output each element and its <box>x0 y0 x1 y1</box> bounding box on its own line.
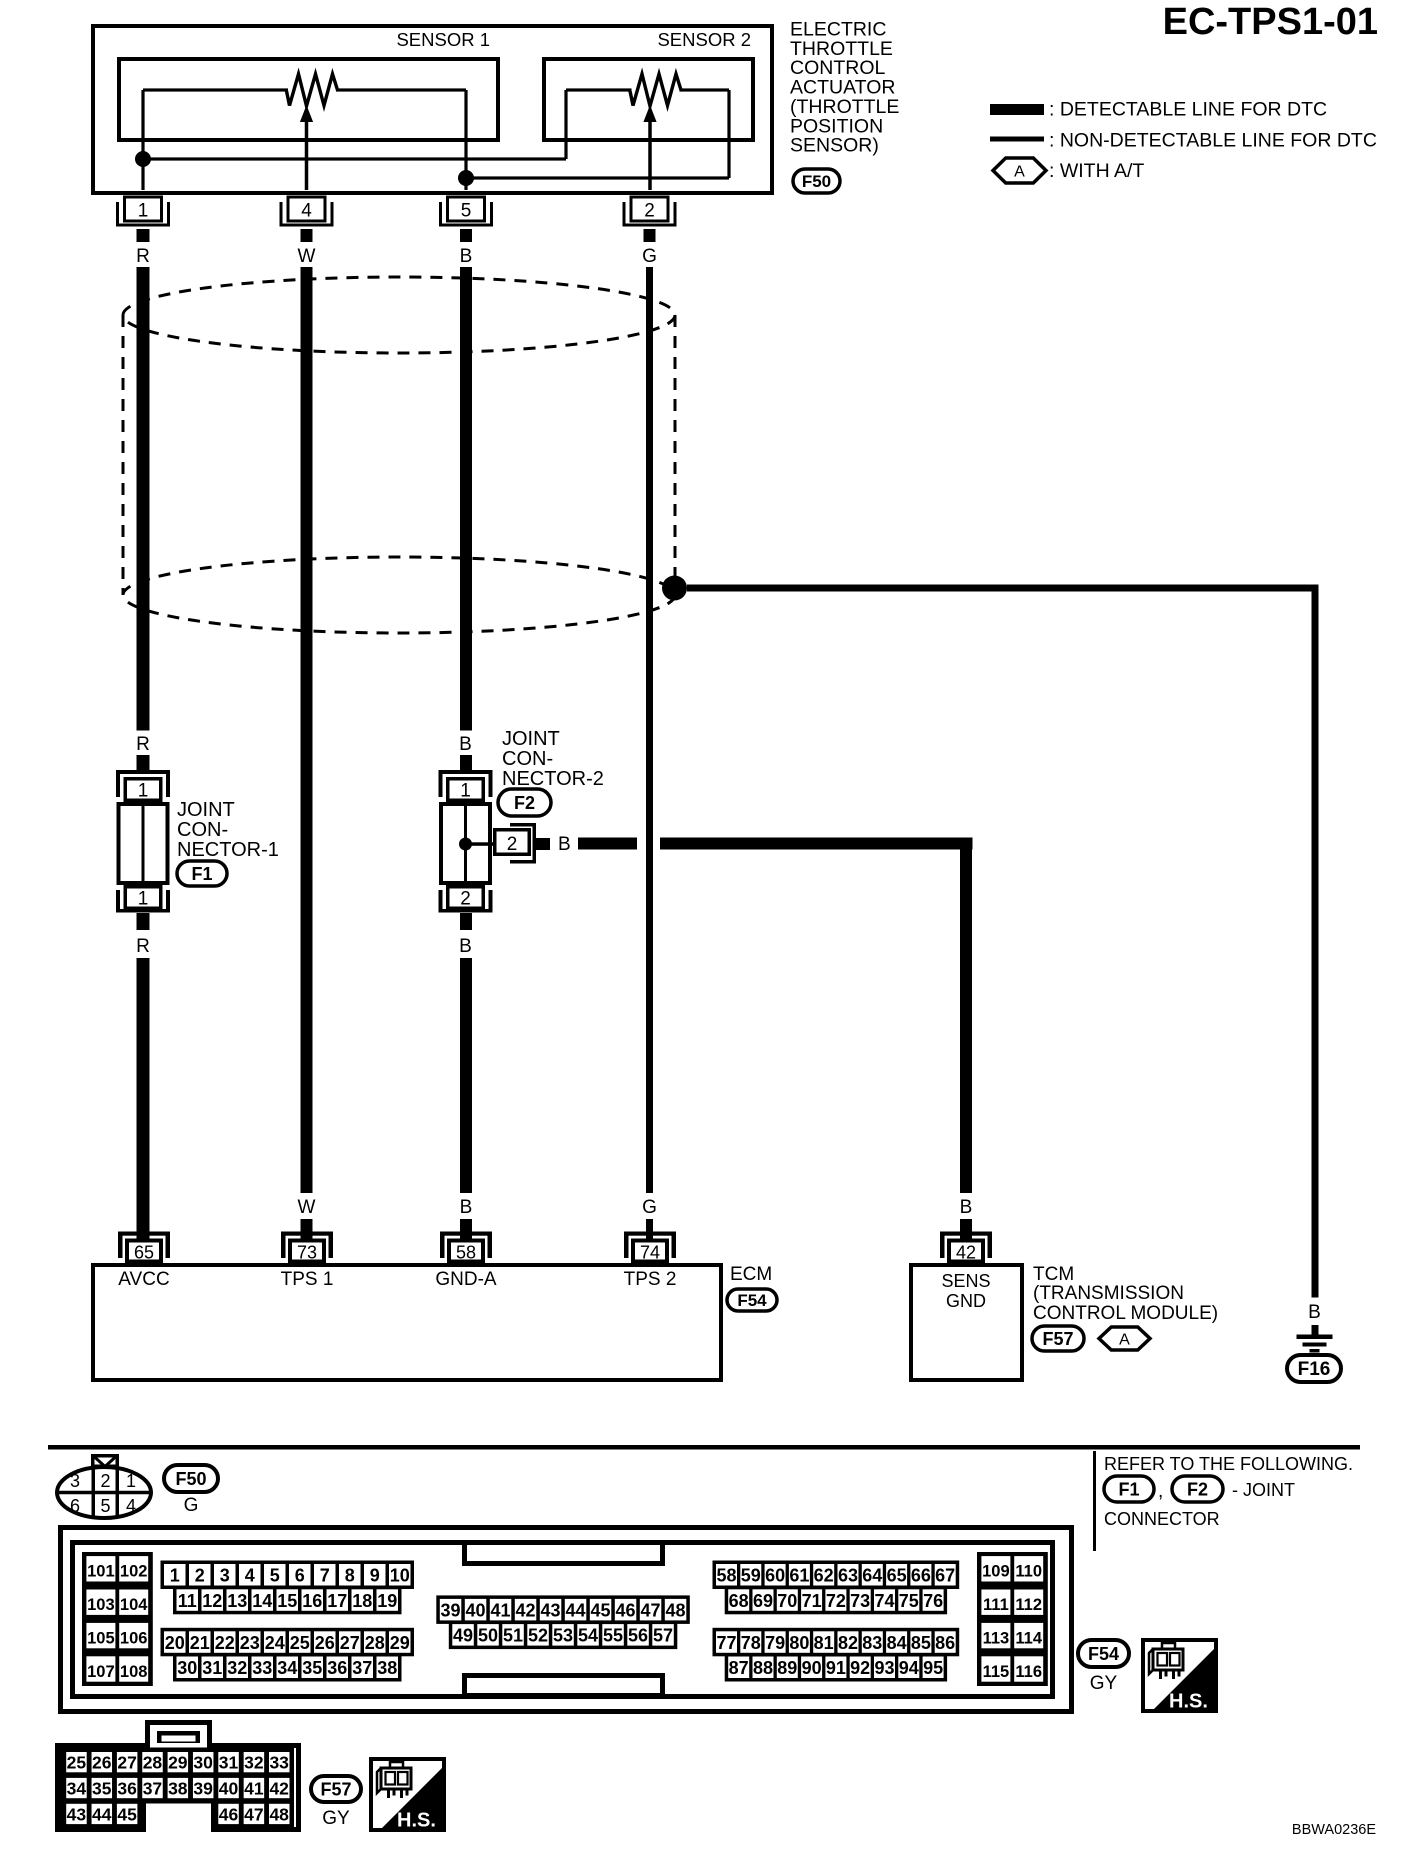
svg-text:73: 73 <box>850 1591 870 1611</box>
svg-text:34: 34 <box>67 1779 87 1799</box>
svg-text:33: 33 <box>252 1658 272 1678</box>
svg-text:41: 41 <box>491 1600 511 1620</box>
svg-text:33: 33 <box>269 1753 289 1773</box>
svg-text:JOINT: JOINT <box>502 728 560 750</box>
svg-text:54: 54 <box>578 1626 598 1646</box>
svg-text:1: 1 <box>138 201 149 222</box>
svg-text:30: 30 <box>177 1658 197 1678</box>
svg-text:CONTROL MODULE): CONTROL MODULE) <box>1033 1303 1218 1324</box>
svg-text:72: 72 <box>826 1591 846 1611</box>
svg-text:26: 26 <box>315 1633 335 1653</box>
svg-text:60: 60 <box>765 1566 785 1586</box>
svg-text:17: 17 <box>327 1591 347 1611</box>
svg-text:43: 43 <box>541 1600 561 1620</box>
svg-text:2: 2 <box>507 834 518 855</box>
svg-text:CON-: CON- <box>502 748 553 770</box>
svg-text:77: 77 <box>716 1633 736 1653</box>
svg-text:28: 28 <box>143 1753 163 1773</box>
svg-text:32: 32 <box>244 1753 264 1773</box>
svg-text:39: 39 <box>441 1600 461 1620</box>
svg-text:31: 31 <box>202 1658 222 1678</box>
svg-text:: DETECTABLE LINE FOR DTC: : DETECTABLE LINE FOR DTC <box>1049 99 1327 121</box>
svg-text:103: 103 <box>87 1596 115 1614</box>
svg-text:41: 41 <box>244 1779 264 1799</box>
svg-text:57: 57 <box>653 1626 673 1646</box>
svg-text:73: 73 <box>297 1243 317 1263</box>
svg-text:81: 81 <box>814 1633 834 1653</box>
svg-text:3: 3 <box>220 1566 230 1586</box>
svg-text:2: 2 <box>100 1471 110 1491</box>
svg-text:116: 116 <box>1015 1663 1042 1681</box>
svg-text:85: 85 <box>911 1633 931 1653</box>
svg-text:62: 62 <box>814 1566 834 1586</box>
svg-text:JOINT: JOINT <box>177 799 235 821</box>
svg-text:SENSOR 2: SENSOR 2 <box>657 29 751 50</box>
svg-text:29: 29 <box>390 1633 410 1653</box>
svg-text:71: 71 <box>802 1591 822 1611</box>
svg-text:6: 6 <box>70 1496 80 1516</box>
svg-text:GY: GY <box>322 1808 350 1829</box>
svg-text:CONNECTOR: CONNECTOR <box>1104 1509 1220 1529</box>
svg-text:88: 88 <box>753 1658 773 1678</box>
svg-text:B: B <box>460 1197 473 1218</box>
svg-text:20: 20 <box>165 1633 185 1653</box>
svg-text:13: 13 <box>227 1591 247 1611</box>
svg-text:113: 113 <box>983 1629 1010 1647</box>
svg-text:50: 50 <box>478 1626 498 1646</box>
svg-text:F57: F57 <box>320 1779 351 1799</box>
svg-text:F16: F16 <box>1298 1359 1331 1380</box>
svg-text:65: 65 <box>887 1566 907 1586</box>
svg-text:102: 102 <box>120 1563 148 1581</box>
svg-text:H.S.: H.S. <box>397 1810 436 1832</box>
svg-text:86: 86 <box>935 1633 955 1653</box>
svg-text:1: 1 <box>126 1471 136 1491</box>
svg-text:W: W <box>298 246 316 267</box>
svg-text:F1: F1 <box>191 864 212 884</box>
svg-text:2: 2 <box>195 1566 205 1586</box>
svg-text:59: 59 <box>741 1566 761 1586</box>
svg-text:18: 18 <box>352 1591 372 1611</box>
svg-text:4: 4 <box>126 1496 136 1516</box>
svg-text:90: 90 <box>802 1658 822 1678</box>
svg-text:B: B <box>960 1197 973 1218</box>
svg-text:68: 68 <box>729 1591 749 1611</box>
svg-text:19: 19 <box>377 1591 397 1611</box>
svg-text:CON-: CON- <box>177 819 228 841</box>
svg-text:7: 7 <box>320 1566 330 1586</box>
svg-text:AVCC: AVCC <box>118 1269 169 1290</box>
svg-text:W: W <box>298 1197 316 1218</box>
svg-text:EC-TPS1-01: EC-TPS1-01 <box>1163 1 1378 43</box>
svg-text:R: R <box>136 246 150 267</box>
svg-text:80: 80 <box>789 1633 809 1653</box>
svg-text:11: 11 <box>178 1591 197 1611</box>
svg-text:92: 92 <box>850 1658 870 1678</box>
svg-text:51: 51 <box>503 1626 523 1646</box>
svg-text:10: 10 <box>390 1566 410 1586</box>
svg-text:42: 42 <box>269 1779 289 1799</box>
svg-text:F50: F50 <box>175 1469 206 1489</box>
svg-text:93: 93 <box>874 1658 894 1678</box>
svg-text:89: 89 <box>777 1658 797 1678</box>
svg-text:F50: F50 <box>802 172 831 191</box>
svg-text:79: 79 <box>765 1633 785 1653</box>
svg-text:F2: F2 <box>1187 1479 1208 1499</box>
svg-text:A: A <box>1014 163 1025 180</box>
svg-text:76: 76 <box>923 1591 943 1611</box>
svg-text:35: 35 <box>302 1658 322 1678</box>
svg-text:25: 25 <box>67 1753 87 1773</box>
svg-text:H.S.: H.S. <box>1169 1691 1208 1713</box>
svg-text:53: 53 <box>553 1626 573 1646</box>
svg-text:82: 82 <box>838 1633 858 1653</box>
svg-text:TCM: TCM <box>1033 1264 1074 1285</box>
svg-text:27: 27 <box>117 1753 136 1773</box>
svg-text:12: 12 <box>202 1591 222 1611</box>
svg-text:TPS 2: TPS 2 <box>624 1269 677 1290</box>
svg-text:B: B <box>460 246 473 267</box>
svg-text:(TRANSMISSION: (TRANSMISSION <box>1033 1283 1184 1304</box>
svg-text:14: 14 <box>252 1591 272 1611</box>
svg-text:BBWA0236E: BBWA0236E <box>1292 1822 1376 1838</box>
svg-text:67: 67 <box>935 1566 955 1586</box>
svg-text:110: 110 <box>1015 1563 1042 1581</box>
svg-text:56: 56 <box>628 1626 648 1646</box>
svg-text:114: 114 <box>1015 1629 1042 1647</box>
svg-text:91: 91 <box>826 1658 846 1678</box>
svg-text:SENSOR 1: SENSOR 1 <box>396 29 490 50</box>
svg-text:105: 105 <box>87 1629 115 1647</box>
svg-text:SENSOR): SENSOR) <box>790 135 879 157</box>
svg-text:15: 15 <box>277 1591 297 1611</box>
svg-text:83: 83 <box>862 1633 882 1653</box>
svg-text:37: 37 <box>352 1658 372 1678</box>
svg-text:16: 16 <box>302 1591 322 1611</box>
svg-text:45: 45 <box>591 1600 611 1620</box>
svg-text:31: 31 <box>219 1753 239 1773</box>
svg-text:48: 48 <box>269 1804 289 1824</box>
svg-text:B: B <box>558 834 571 855</box>
svg-text:38: 38 <box>168 1779 188 1799</box>
svg-text:58: 58 <box>716 1566 736 1586</box>
svg-text:5: 5 <box>270 1566 280 1586</box>
svg-text:47: 47 <box>244 1804 263 1824</box>
svg-text:45: 45 <box>117 1804 137 1824</box>
svg-text:58: 58 <box>456 1243 476 1263</box>
svg-text:40: 40 <box>219 1779 239 1799</box>
svg-text:REFER TO THE FOLLOWING.: REFER TO THE FOLLOWING. <box>1104 1454 1353 1474</box>
svg-text:107: 107 <box>87 1663 115 1681</box>
svg-text:115: 115 <box>983 1663 1010 1681</box>
svg-text:49: 49 <box>453 1626 473 1646</box>
svg-text:F54: F54 <box>1088 1644 1119 1664</box>
svg-text:G: G <box>642 1197 657 1218</box>
svg-text:5: 5 <box>461 201 472 222</box>
svg-text:38: 38 <box>377 1658 397 1678</box>
svg-text:GY: GY <box>1090 1673 1118 1694</box>
svg-text:35: 35 <box>92 1779 112 1799</box>
svg-text:21: 21 <box>190 1633 210 1653</box>
svg-text:8: 8 <box>345 1566 355 1586</box>
svg-text:6: 6 <box>295 1566 305 1586</box>
svg-text:84: 84 <box>887 1633 907 1653</box>
svg-text:112: 112 <box>1015 1596 1042 1614</box>
svg-text:36: 36 <box>327 1658 347 1678</box>
svg-text:F2: F2 <box>514 793 535 813</box>
svg-text:29: 29 <box>168 1753 188 1773</box>
svg-text:R: R <box>136 734 150 755</box>
svg-text:66: 66 <box>911 1566 931 1586</box>
svg-text:63: 63 <box>838 1566 858 1586</box>
svg-text:28: 28 <box>365 1633 385 1653</box>
svg-text:64: 64 <box>862 1566 882 1586</box>
svg-text:46: 46 <box>616 1600 636 1620</box>
svg-text:: NON-DETECTABLE LINE FOR DTC: : NON-DETECTABLE LINE FOR DTC <box>1049 130 1377 152</box>
svg-text:23: 23 <box>240 1633 260 1653</box>
svg-text:42: 42 <box>516 1600 536 1620</box>
svg-text:GND: GND <box>946 1291 986 1311</box>
svg-text:NECTOR-1: NECTOR-1 <box>177 839 279 861</box>
svg-text:NECTOR-2: NECTOR-2 <box>502 768 604 790</box>
svg-text:108: 108 <box>120 1663 148 1681</box>
svg-text:30: 30 <box>193 1753 213 1773</box>
svg-text:F1: F1 <box>1118 1479 1139 1499</box>
svg-text:5: 5 <box>100 1496 110 1516</box>
svg-text:44: 44 <box>566 1600 586 1620</box>
svg-text:109: 109 <box>982 1563 1010 1581</box>
svg-text:25: 25 <box>290 1633 310 1653</box>
svg-text:1: 1 <box>170 1566 180 1586</box>
svg-text:F57: F57 <box>1042 1329 1073 1349</box>
svg-text:24: 24 <box>265 1633 285 1653</box>
svg-text:74: 74 <box>874 1591 894 1611</box>
svg-text:69: 69 <box>753 1591 773 1611</box>
svg-text:9: 9 <box>370 1566 380 1586</box>
svg-text:1: 1 <box>460 781 471 802</box>
svg-text:27: 27 <box>340 1633 360 1653</box>
svg-text:111: 111 <box>983 1596 1009 1614</box>
svg-text:47: 47 <box>641 1600 661 1620</box>
svg-text:40: 40 <box>466 1600 486 1620</box>
svg-text:78: 78 <box>741 1633 761 1653</box>
svg-text:: WITH A/T: : WITH A/T <box>1049 160 1144 182</box>
svg-text:3: 3 <box>70 1471 80 1491</box>
svg-text:87: 87 <box>729 1658 749 1678</box>
svg-text:70: 70 <box>777 1591 797 1611</box>
svg-text:48: 48 <box>666 1600 686 1620</box>
svg-text:36: 36 <box>117 1779 137 1799</box>
svg-text:61: 61 <box>789 1566 809 1586</box>
svg-text:44: 44 <box>92 1804 112 1824</box>
svg-text:2: 2 <box>644 201 655 222</box>
svg-text:75: 75 <box>899 1591 919 1611</box>
svg-text:2: 2 <box>460 889 471 910</box>
svg-text:F54: F54 <box>737 1291 767 1310</box>
svg-text:37: 37 <box>143 1779 162 1799</box>
svg-text:101: 101 <box>87 1563 115 1581</box>
svg-text:G: G <box>184 1495 199 1516</box>
svg-text:SENS: SENS <box>941 1271 990 1291</box>
svg-text:- JOINT: - JOINT <box>1232 1480 1295 1500</box>
svg-text:106: 106 <box>120 1629 148 1647</box>
svg-text:A: A <box>1119 1331 1130 1348</box>
svg-text:G: G <box>642 246 657 267</box>
svg-text:1: 1 <box>138 781 149 802</box>
svg-text:95: 95 <box>923 1658 943 1678</box>
svg-text:ECM: ECM <box>730 1264 772 1285</box>
svg-text:,: , <box>1158 1481 1163 1502</box>
svg-text:34: 34 <box>277 1658 297 1678</box>
svg-text:R: R <box>136 936 150 957</box>
svg-text:26: 26 <box>92 1753 112 1773</box>
svg-text:104: 104 <box>120 1596 148 1614</box>
svg-text:55: 55 <box>603 1626 623 1646</box>
svg-text:22: 22 <box>215 1633 235 1653</box>
svg-text:TPS 1: TPS 1 <box>281 1269 334 1290</box>
svg-text:B: B <box>459 936 472 957</box>
svg-text:B: B <box>1308 1302 1321 1323</box>
svg-text:4: 4 <box>301 201 312 222</box>
svg-text:39: 39 <box>193 1779 213 1799</box>
svg-text:42: 42 <box>956 1243 976 1263</box>
svg-text:43: 43 <box>67 1804 87 1824</box>
svg-text:74: 74 <box>640 1243 660 1263</box>
svg-text:GND-A: GND-A <box>435 1269 497 1290</box>
svg-text:B: B <box>459 734 472 755</box>
svg-text:65: 65 <box>134 1243 154 1263</box>
svg-text:52: 52 <box>528 1626 548 1646</box>
svg-text:1: 1 <box>138 889 149 910</box>
svg-text:94: 94 <box>899 1658 919 1678</box>
svg-text:32: 32 <box>227 1658 247 1678</box>
svg-text:46: 46 <box>219 1804 239 1824</box>
svg-text:4: 4 <box>245 1566 255 1586</box>
